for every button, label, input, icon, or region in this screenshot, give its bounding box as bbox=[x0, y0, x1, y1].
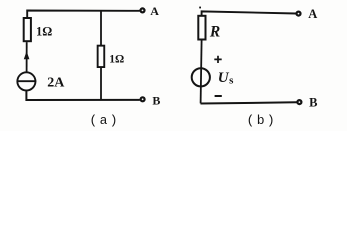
current source I1 chord line bbox=[17, 80, 37, 82]
wire: circuit (b) top wire from corner to terminal A bbox=[202, 11, 296, 15]
current source I1 circle bbox=[17, 72, 35, 90]
wire: circuit (b) bottom wire to terminal B bbox=[201, 102, 297, 103]
svg-text:A: A bbox=[308, 7, 317, 21]
wire: from R bottom through voltage source to bottom rail (vertical lead line) bbox=[201, 40, 202, 103]
svg-text:2A: 2A bbox=[47, 76, 65, 91]
svg-text:A: A bbox=[150, 4, 159, 18]
wire: circuit (a) top wire from left branch corner to terminal A bbox=[27, 11, 140, 18]
wire: middle branch vertical (upper part) bbox=[100, 11, 102, 46]
resistor R (circuit b) bbox=[198, 16, 205, 40]
minus sign of Us bbox=[215, 95, 222, 97]
wire: from current source bottom to circuit (a) bottom rail, then to terminal B bbox=[26, 91, 139, 100]
terminal B of circuit (a) bbox=[141, 97, 145, 101]
svg-text:B: B bbox=[309, 96, 317, 110]
current source arrow (pointing up toward R1) bbox=[24, 52, 29, 59]
stray ink speck above circuit (b) bbox=[199, 7, 201, 9]
svg-text:s: s bbox=[229, 75, 234, 87]
resistor R2 1Ω (middle branch of circuit a) bbox=[98, 46, 105, 67]
terminal B of circuit (b) bbox=[297, 100, 301, 104]
svg-text:U: U bbox=[218, 70, 230, 86]
svg-text:B: B bbox=[152, 94, 160, 108]
terminal A of circuit (a) bbox=[141, 8, 145, 12]
resistor R1 1Ω (left branch of circuit a) bbox=[24, 18, 31, 41]
svg-text:R: R bbox=[209, 24, 220, 41]
wire: from R1 bottom to current source top bbox=[26, 42, 28, 72]
terminal A of circuit (b) bbox=[297, 12, 301, 16]
svg-text:1Ω: 1Ω bbox=[36, 25, 52, 39]
svg-text:(a): (a) bbox=[89, 113, 120, 128]
svg-text:(b): (b) bbox=[247, 113, 278, 128]
voltage source Us circle bbox=[192, 68, 210, 86]
plus sign of Us bbox=[214, 56, 221, 63]
wire: middle branch vertical (lower part) bbox=[100, 68, 102, 101]
svg-text:1Ω: 1Ω bbox=[109, 53, 124, 65]
